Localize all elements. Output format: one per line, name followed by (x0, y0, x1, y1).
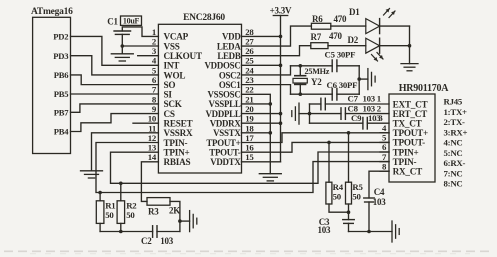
svg-text:15: 15 (245, 152, 254, 162)
svg-text:SCK: SCK (164, 99, 183, 109)
svg-text:3:RX+: 3:RX+ (444, 127, 468, 137)
svg-text:5:NC: 5:NC (444, 148, 463, 158)
svg-text:PB5: PB5 (54, 89, 69, 99)
svg-text:50: 50 (352, 192, 361, 202)
svg-text:INT: INT (164, 61, 180, 71)
svg-text:3: 3 (378, 113, 383, 123)
svg-text:7: 7 (152, 85, 157, 95)
svg-text:50: 50 (105, 210, 114, 220)
svg-text:R6: R6 (312, 14, 323, 24)
svg-text:12: 12 (148, 133, 157, 143)
svg-text:VSSOSC: VSSOSC (207, 90, 240, 100)
svg-text:ENC28J60: ENC28J60 (183, 13, 225, 23)
svg-text:PB6: PB6 (54, 70, 69, 80)
svg-text:6: 6 (152, 75, 157, 85)
svg-text:TPOUT-: TPOUT- (393, 138, 426, 148)
svg-text:23: 23 (245, 75, 254, 85)
svg-text:VDDTX: VDDTX (210, 157, 241, 167)
svg-text:R4: R4 (333, 182, 344, 192)
svg-text:VSSTX: VSSTX (213, 128, 241, 138)
svg-text:1:TX+: 1:TX+ (444, 107, 468, 117)
svg-text:2:TX-: 2:TX- (444, 117, 466, 127)
svg-text:18: 18 (245, 123, 254, 133)
svg-text:Y2: Y2 (311, 77, 322, 87)
svg-text:C1: C1 (107, 17, 118, 27)
svg-text:EXT_CT: EXT_CT (393, 99, 428, 109)
svg-text:PB4: PB4 (54, 127, 69, 137)
svg-text:VSSRX: VSSRX (164, 128, 193, 138)
svg-text:22: 22 (245, 85, 254, 95)
svg-text:VSS: VSS (164, 41, 180, 51)
svg-text:1: 1 (152, 27, 156, 37)
svg-text:9: 9 (152, 104, 157, 114)
svg-text:RESET: RESET (164, 119, 193, 129)
svg-text:PD2: PD2 (53, 32, 68, 42)
svg-text:50: 50 (333, 192, 342, 202)
svg-text:TPOUT-: TPOUT- (209, 147, 241, 157)
svg-text:TPIN-: TPIN- (164, 138, 188, 148)
svg-text:103: 103 (318, 225, 332, 235)
svg-text:RBIAS: RBIAS (164, 157, 191, 167)
svg-text:R3: R3 (148, 207, 159, 217)
svg-text:103: 103 (373, 197, 387, 207)
svg-text:470: 470 (334, 14, 348, 24)
svg-text:103: 103 (160, 236, 174, 246)
svg-text:21: 21 (245, 94, 253, 104)
svg-text:2: 2 (377, 103, 382, 113)
svg-text:TPOUT+: TPOUT+ (393, 128, 428, 138)
svg-text:C5 30PF: C5 30PF (325, 50, 356, 60)
svg-text:C8: C8 (348, 103, 359, 113)
svg-text:1: 1 (377, 94, 381, 104)
svg-text:8:NC: 8:NC (444, 179, 463, 189)
svg-text:20: 20 (245, 104, 254, 114)
svg-text:LEDB: LEDB (217, 51, 240, 61)
svg-text:2: 2 (152, 36, 157, 46)
svg-text:6: 6 (382, 142, 387, 152)
svg-text:25: 25 (245, 56, 254, 66)
svg-text:10uF: 10uF (123, 16, 140, 25)
svg-text:R5: R5 (352, 182, 363, 192)
svg-text:OSC1: OSC1 (219, 80, 241, 90)
svg-text:470: 470 (329, 31, 343, 41)
svg-text:PB7: PB7 (54, 108, 69, 118)
svg-text:TPIN-: TPIN- (393, 157, 417, 167)
svg-text:VDD: VDD (222, 32, 240, 42)
svg-text:11: 11 (148, 123, 156, 133)
svg-text:CS: CS (164, 109, 175, 119)
svg-text:4:NC: 4:NC (444, 138, 463, 148)
svg-text:17: 17 (245, 133, 254, 143)
svg-text:C6 30PF: C6 30PF (327, 80, 358, 90)
svg-text:19: 19 (245, 114, 254, 124)
svg-text:VCAP: VCAP (164, 32, 189, 42)
svg-text:D2: D2 (348, 35, 359, 45)
svg-text:VSSPLL: VSSPLL (208, 99, 240, 109)
svg-text:+3.3V: +3.3V (270, 6, 292, 16)
svg-text:C9: C9 (351, 113, 362, 123)
svg-text:28: 28 (245, 27, 254, 37)
svg-text:7:NC: 7:NC (444, 168, 463, 178)
svg-text:PD3: PD3 (53, 51, 68, 61)
svg-text:VDDRX: VDDRX (210, 119, 242, 129)
svg-text:14: 14 (148, 152, 157, 162)
svg-text:R7: R7 (311, 32, 322, 42)
svg-text:13: 13 (148, 143, 157, 153)
svg-text:C4: C4 (374, 187, 385, 197)
svg-text:CLKOUT: CLKOUT (164, 51, 202, 61)
svg-text:HR901170A: HR901170A (399, 83, 449, 94)
svg-text:RJ45: RJ45 (444, 97, 463, 107)
svg-text:C7: C7 (348, 94, 359, 104)
svg-text:SI: SI (164, 90, 173, 100)
svg-text:26: 26 (245, 46, 254, 56)
svg-text:VDDPLL: VDDPLL (206, 109, 241, 119)
svg-text:VDDOSC: VDDOSC (205, 61, 241, 71)
svg-text:8: 8 (152, 94, 157, 104)
svg-text:103: 103 (363, 103, 376, 113)
svg-text:3: 3 (152, 46, 157, 56)
svg-text:7: 7 (382, 152, 387, 162)
svg-text:R2: R2 (126, 201, 137, 211)
svg-text:24: 24 (245, 65, 254, 75)
svg-text:8: 8 (382, 161, 387, 171)
svg-text:5: 5 (382, 133, 387, 143)
svg-text:103: 103 (363, 94, 376, 104)
svg-text:ATmega16: ATmega16 (31, 7, 73, 17)
svg-text:16: 16 (245, 143, 254, 153)
svg-text:4: 4 (382, 123, 387, 133)
svg-text:R1: R1 (105, 201, 115, 211)
svg-text:50: 50 (126, 210, 135, 220)
svg-text:D1: D1 (349, 7, 360, 17)
svg-text:TX_CT: TX_CT (393, 119, 422, 129)
svg-text:10: 10 (148, 114, 157, 124)
svg-text:ERT_CT: ERT_CT (393, 109, 428, 119)
svg-text:2K: 2K (169, 206, 180, 216)
svg-text:25MHz: 25MHz (305, 67, 330, 76)
svg-text:RX_CT: RX_CT (393, 167, 422, 177)
svg-text:TPIN+: TPIN+ (393, 147, 419, 157)
svg-text:27: 27 (245, 36, 254, 46)
svg-text:C2: C2 (141, 236, 152, 246)
svg-text:TPIN+: TPIN+ (164, 147, 190, 157)
svg-text:OSC2: OSC2 (219, 70, 241, 80)
svg-text:6:RX-: 6:RX- (444, 158, 466, 168)
svg-text:SO: SO (164, 80, 176, 90)
svg-text:4: 4 (152, 56, 157, 66)
svg-text:5: 5 (152, 65, 157, 75)
svg-text:LEDA: LEDA (217, 41, 241, 51)
svg-text:WOL: WOL (164, 70, 186, 80)
svg-text:TPOUT+: TPOUT+ (206, 138, 240, 148)
